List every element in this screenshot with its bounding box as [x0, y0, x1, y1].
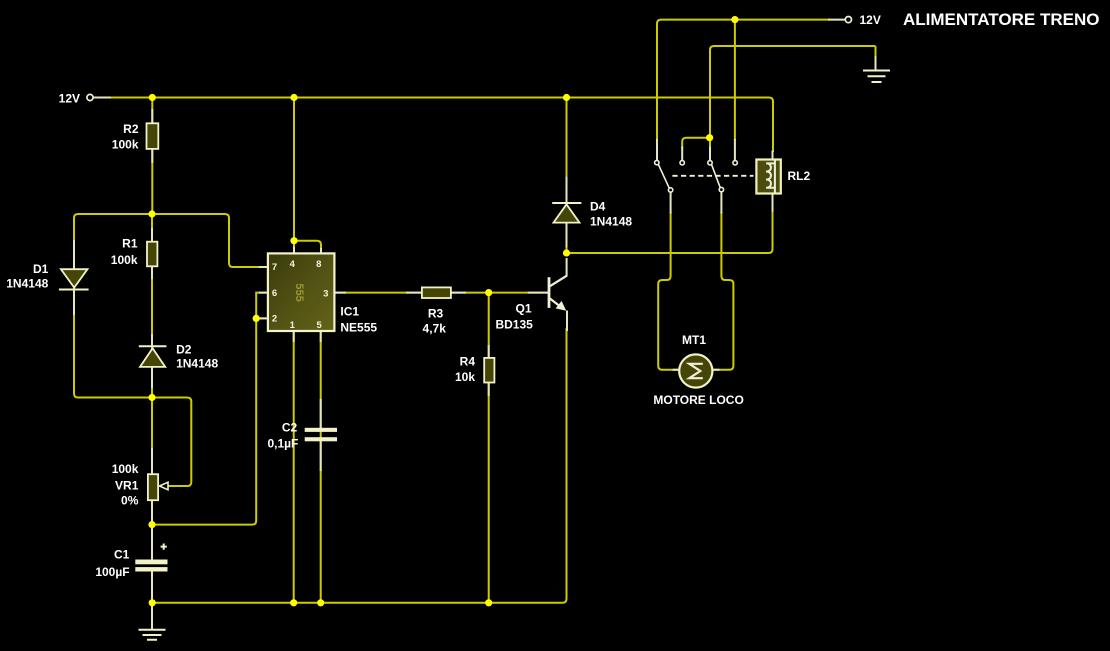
wire D1 loop [74, 214, 152, 398]
wire pin4/8 riser [293, 98, 295, 254]
wire top rail to 12V terminal [657, 20, 830, 140]
svg-text:D4: D4 [590, 199, 606, 213]
svg-text:Q1: Q1 [515, 302, 531, 316]
node VR1-C1 [148, 521, 155, 528]
node R2-R1-D1-pin7 [148, 210, 155, 217]
svg-text:R1: R1 [122, 237, 138, 251]
wire +12V main rail to relay coil top [92, 98, 773, 153]
svg-text:1N4148: 1N4148 [590, 215, 632, 229]
label R4 value [455, 354, 475, 384]
wire pale leads R2 [151, 109, 153, 163]
node rail-pin4 riser [290, 94, 297, 101]
relay RL2 coil [756, 160, 780, 194]
wire pale leads R1 [151, 228, 153, 279]
node collector-D4-coil [563, 249, 570, 256]
wire pale leads C1 and bottom ground [151, 525, 153, 630]
wire pale relay coil stubs [772, 151, 774, 213]
svg-text:C1: C1 [114, 548, 130, 562]
svg-text:1: 1 [290, 320, 296, 331]
ground bottom left [139, 630, 166, 640]
wire pale relay contact stubs [657, 139, 735, 214]
svg-text:10k: 10k [455, 370, 475, 384]
wire VR1 wiper loop [152, 398, 191, 487]
wire pale leads R4 [488, 345, 490, 396]
terminal 12V left [87, 94, 93, 100]
svg-text:0,1µF: 0,1µF [267, 436, 298, 450]
resistor R4 [484, 358, 494, 383]
wire R2 branch vertical [151, 98, 153, 215]
wire second rail to ground [710, 46, 876, 148]
svg-text:100k: 100k [112, 137, 139, 151]
wire pale lead at left 12V terminal [93, 97, 111, 99]
label IC1 value [340, 305, 377, 335]
label R2 value [112, 122, 139, 152]
wire pole2 to motor right [713, 212, 734, 370]
svg-text:12V: 12V [860, 13, 881, 27]
svg-text:555: 555 [293, 283, 305, 301]
svg-text:5: 5 [317, 320, 323, 331]
wire pale Q1 collector and emitter leads [566, 258, 568, 331]
label D1 value [6, 262, 48, 291]
wire R1-D2 chain vertical [151, 214, 153, 398]
label Q1 value [495, 302, 533, 332]
relay contact SW2 blade [712, 164, 721, 187]
wire IC pin5 through C2 down [320, 331, 322, 603]
label VR1 value [112, 462, 139, 507]
svg-text:MT1: MT1 [682, 333, 706, 347]
svg-text:4,7k: 4,7k [423, 321, 447, 335]
wire pale leads D4 [566, 177, 568, 248]
wire ground rail bottom and emitter riser [152, 328, 566, 603]
svg-text:D2: D2 [176, 342, 192, 356]
svg-text:100k: 100k [111, 253, 138, 267]
resistor R1 [147, 242, 157, 267]
wire collector node to relay coil bottom [567, 211, 773, 253]
svg-text:R4: R4 [460, 354, 476, 368]
svg-text:R2: R2 [123, 122, 139, 136]
motor MT1 [679, 354, 712, 387]
wire pin8 link [294, 241, 321, 253]
wire pale top ground lead [875, 56, 877, 70]
relay contact SW1 blade [658, 164, 669, 188]
wire node to IC pin 7 [152, 214, 266, 267]
node ground rail C1 [149, 599, 156, 606]
capacitor C1 [135, 544, 167, 572]
node ground rail pin1 [290, 599, 297, 606]
ground top right [863, 71, 890, 83]
svg-text:100µF: 100µF [95, 565, 129, 579]
wire pale leads VR1 [151, 448, 153, 522]
svg-text:6: 6 [272, 288, 277, 299]
svg-text:1N4148: 1N4148 [6, 277, 48, 291]
label C2 value [267, 420, 298, 450]
wire D4 branch vertical [566, 98, 568, 254]
diode D1 [59, 269, 89, 289]
resistor R3 [422, 287, 451, 298]
wire pale leads D2 [151, 334, 153, 388]
svg-text:R3: R3 [428, 306, 444, 320]
potentiometer VR1 [148, 474, 168, 500]
relay contact terminals [655, 160, 738, 192]
wire VR1 chain vertical [151, 398, 153, 525]
wire pale leads R3 [406, 292, 548, 294]
svg-text:3: 3 [323, 288, 328, 299]
node pin2-pin6 [253, 315, 260, 322]
wire IC pin1 down [293, 331, 295, 603]
svg-text:RL2: RL2 [788, 169, 811, 183]
svg-text:C2: C2 [282, 420, 298, 434]
diode D2 [139, 346, 167, 367]
label R1 value [111, 237, 138, 267]
wire throw jog T1b [682, 138, 709, 148]
op-amp U1 555 timer IC1 body [268, 253, 335, 331]
wire pale leads C2 [320, 399, 322, 471]
node R3-R4-base [485, 289, 492, 296]
svg-text:2: 2 [272, 314, 277, 325]
svg-text:VR1: VR1 [115, 478, 139, 492]
node rail-R2 [149, 94, 156, 101]
wire pale leads D1 [73, 240, 75, 315]
wire pale motor stubs [673, 369, 720, 371]
capacitor C2 [305, 428, 337, 442]
svg-text:D1: D1 [33, 262, 49, 276]
svg-text:7: 7 [272, 262, 277, 273]
label R3 value [423, 306, 447, 335]
node D1-D2-VR1-wiper [148, 394, 155, 401]
node ground rail R4 [485, 599, 492, 606]
svg-text:MOTORE LOCO: MOTORE LOCO [653, 393, 743, 407]
label D4 value [590, 199, 632, 228]
label D2 value [176, 342, 218, 370]
svg-text:NE555: NE555 [340, 320, 377, 334]
resistor R2 [147, 123, 159, 149]
wire pole1 to motor left [658, 212, 679, 370]
node rail-D4 [563, 94, 570, 101]
node ground rail C2 [317, 599, 324, 606]
wire pin3 to Q1 base [335, 292, 548, 294]
node top rail [731, 16, 738, 23]
svg-text:4: 4 [290, 259, 296, 270]
wire pin2 node down to C1 node [152, 318, 256, 524]
svg-text:BD135: BD135 [495, 318, 533, 332]
svg-text:1N4148: 1N4148 [176, 356, 218, 370]
node relay throws [706, 134, 713, 141]
wire pale IC pin stubs [259, 247, 346, 343]
diode D4 [552, 203, 581, 223]
wire R4 branch down [488, 293, 490, 603]
svg-text:0%: 0% [121, 494, 139, 508]
label C1 value [95, 548, 129, 580]
svg-text:12V: 12V [59, 92, 80, 106]
svg-text:ALIMENTATORE TRENO: ALIMENTATORE TRENO [903, 10, 1099, 29]
wire relay throw T2b riser [734, 20, 736, 140]
transistor Q1 [549, 276, 567, 311]
svg-text:IC1: IC1 [340, 305, 359, 319]
wire pale lead right 12V terminal [828, 19, 845, 21]
svg-text:100k: 100k [112, 462, 139, 476]
wire pin6 to pin2 [256, 293, 266, 319]
node pin4-pin8 [290, 237, 297, 244]
svg-text:8: 8 [316, 259, 321, 270]
relay actuation dashed link [672, 175, 753, 177]
terminal 12V right [845, 17, 851, 23]
